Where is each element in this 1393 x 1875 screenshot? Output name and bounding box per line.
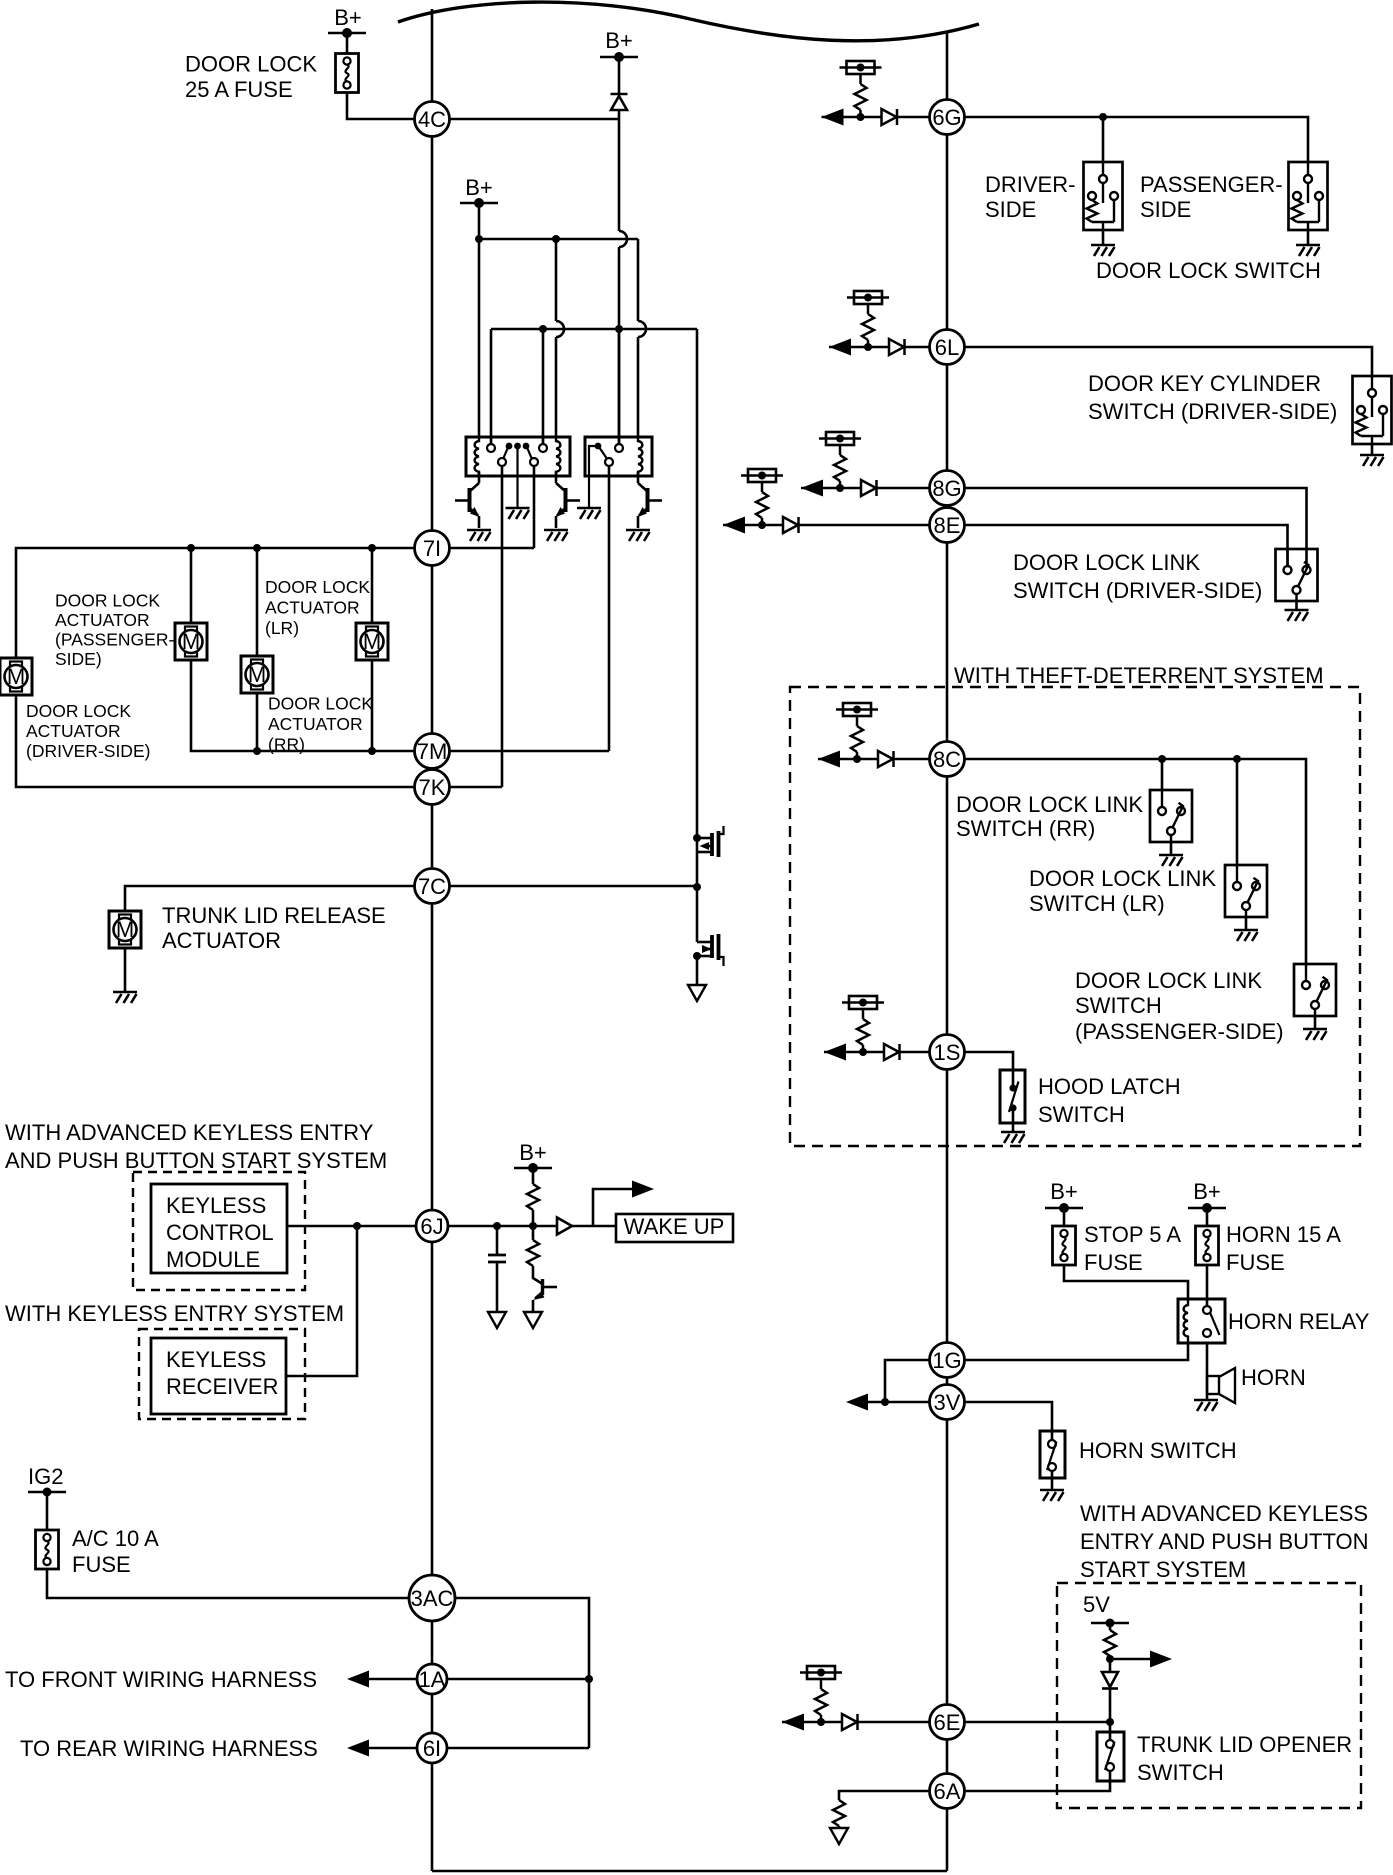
node B+ terminal (door lock fuse) xyxy=(328,28,366,38)
svg-text:TO REAR WIRING HARNESS: TO REAR WIRING HARNESS xyxy=(20,1736,318,1761)
relay U1 changeover contact dots xyxy=(506,443,513,450)
wire: left main bus (x=432) xyxy=(431,9,434,1871)
wire: Q1 emitter to ground xyxy=(478,516,481,528)
svg-text:7M: 7M xyxy=(417,739,448,764)
connector 8C xyxy=(930,742,965,777)
wire: 8G motif to bus xyxy=(877,487,931,490)
connector 8G xyxy=(930,471,965,506)
relay U1 pin circle 1 xyxy=(487,444,495,452)
svg-text:(LR): (LR) xyxy=(265,618,299,638)
svg-text:WITH ADVANCED KEYLESS: WITH ADVANCED KEYLESS xyxy=(1080,1501,1368,1526)
svg-text:6I: 6I xyxy=(423,1736,441,1761)
wire: feed 2 right end down to MOSFET drain xyxy=(696,329,699,887)
wire: actuator passenger-side to 7M line xyxy=(191,660,415,751)
svg-text:HORN 15 A: HORN 15 A xyxy=(1226,1222,1341,1247)
svg-text:MODULE: MODULE xyxy=(166,1247,260,1272)
wire: SW4 to ground xyxy=(1295,601,1298,610)
node IG2 terminal xyxy=(28,1491,66,1494)
wire: 8G right line down to link switch xyxy=(964,488,1307,566)
svg-text:DOOR LOCK: DOOR LOCK xyxy=(55,591,160,611)
wire: 8C to RR link switch xyxy=(1161,759,1164,790)
svg-text:1G: 1G xyxy=(932,1348,961,1373)
svg-text:DOOR LOCK: DOOR LOCK xyxy=(265,577,370,597)
wire: horn relay contact to horn xyxy=(1206,1343,1209,1399)
svg-text:HORN SWITCH: HORN SWITCH xyxy=(1079,1438,1237,1463)
connector 6G xyxy=(930,100,965,135)
wire: MOSFET node down xyxy=(696,887,699,942)
connector 7I xyxy=(415,531,450,566)
node junction (191,548) xyxy=(187,544,195,552)
ground (horn) xyxy=(1194,1400,1218,1411)
switch SW2 door lock switch passenger-side xyxy=(1289,162,1328,230)
wire: feed 2 to relay1 pin 2 xyxy=(542,329,545,444)
ground (SW1) xyxy=(1091,245,1115,256)
node junction (885,1402) xyxy=(881,1398,889,1406)
wire: feed down to relay 1 coil left xyxy=(478,239,481,437)
wire: actuator LR to 7M line xyxy=(256,693,259,751)
connector 7K xyxy=(415,770,450,805)
wire: stop fuse to horn relay coil xyxy=(1064,1265,1188,1299)
relay U1 pin circle 2 xyxy=(539,444,547,452)
arrow (3V/1G to other page) xyxy=(846,1394,868,1411)
svg-text:1A: 1A xyxy=(419,1667,446,1692)
wire: 1A left arrow line xyxy=(369,1678,417,1681)
svg-text:A/C 10 A: A/C 10 A xyxy=(72,1526,159,1551)
svg-text:KEYLESS: KEYLESS xyxy=(166,1193,266,1218)
MOSFET Q4 (high side) xyxy=(697,837,712,840)
wire: B+ down to feed line 1 xyxy=(478,203,481,239)
connector 8E xyxy=(930,508,965,543)
wire: SW7 to ground xyxy=(1314,1016,1317,1029)
arrow (to front wiring harness) xyxy=(347,1671,369,1688)
wire: Q2 emitter to ground xyxy=(555,516,558,528)
svg-text:DOOR LOCK: DOOR LOCK xyxy=(185,52,317,77)
svg-text:SWITCH (RR): SWITCH (RR) xyxy=(956,816,1095,841)
svg-text:6E: 6E xyxy=(934,1710,961,1735)
wire: 3V left line xyxy=(868,1401,930,1404)
wire: SW2 to ground xyxy=(1307,230,1310,245)
horn speaker symbol xyxy=(1207,1376,1219,1394)
svg-text:M: M xyxy=(182,629,200,654)
node junction (497,1226) xyxy=(493,1222,501,1230)
connector 6I xyxy=(417,1733,447,1763)
wire hop (branch over feed line 2) xyxy=(638,321,646,337)
wire: SW6 to ground xyxy=(1245,917,1248,930)
wire: 7C line left to trunk actuator xyxy=(125,886,415,911)
connector 6A xyxy=(930,1774,965,1809)
wire: 7I line right to relay U1 contact xyxy=(450,547,535,550)
arrow (5V branch, pointing right) xyxy=(1150,1651,1172,1668)
resistor motif (8G spare connector, resistor, arrow, diode D3) xyxy=(801,432,877,497)
arrow (to rear wiring harness) xyxy=(347,1740,369,1757)
relay U3 contact blade xyxy=(1210,1313,1220,1336)
connector 1A xyxy=(417,1664,447,1694)
relay U1 coil left xyxy=(475,437,479,476)
node junction (357,1226) xyxy=(353,1222,361,1230)
wire: 8C to LR link switch xyxy=(1236,759,1239,865)
resistor motif (6E spare connector, resistor, arrow, diode D8) xyxy=(782,1666,858,1731)
relay U1 contact circle left xyxy=(498,458,506,466)
svg-text:DOOR LOCK: DOOR LOCK xyxy=(26,701,131,721)
relay U3 horn relay box xyxy=(1178,1299,1225,1343)
node junction (589,1679) xyxy=(585,1675,593,1683)
node B+ terminal (relay feed) xyxy=(460,198,498,208)
svg-text:DOOR KEY CYLINDER: DOOR KEY CYLINDER xyxy=(1088,371,1321,396)
wire: SW1 to ground xyxy=(1102,230,1105,245)
svg-text:B+: B+ xyxy=(334,5,362,30)
svg-text:FUSE: FUSE xyxy=(1226,1250,1285,1275)
dashed box: keyless control module xyxy=(133,1172,305,1290)
ground (SW7) xyxy=(1303,1029,1327,1040)
connector 1G xyxy=(930,1343,965,1378)
wire: 8C motif to bus xyxy=(894,758,931,761)
transistor Q1 xyxy=(470,483,480,492)
node junction (697,887) xyxy=(693,883,701,891)
node junction (1237,759) xyxy=(1233,755,1241,763)
relay U2 contact circle xyxy=(605,458,613,466)
svg-text:25 A FUSE: 25 A FUSE xyxy=(185,77,293,102)
wire: 7I to actuator LR xyxy=(256,548,259,656)
dashed box: keyless receiver xyxy=(139,1329,305,1419)
node junction (372,751) xyxy=(368,747,376,755)
node junction (372,548) xyxy=(368,544,376,552)
node junction (1103,117) xyxy=(1099,113,1107,121)
svg-text:3AC: 3AC xyxy=(411,1586,454,1611)
node junction (533,1226) xyxy=(529,1222,537,1230)
svg-text:M: M xyxy=(7,664,25,689)
svg-text:CONTROL: CONTROL xyxy=(166,1220,274,1245)
svg-text:ENTRY AND PUSH BUTTON: ENTRY AND PUSH BUTTON xyxy=(1080,1529,1369,1554)
svg-text:(PASSENGER-SIDE): (PASSENGER-SIDE) xyxy=(1075,1019,1284,1044)
resistor R1 (pull-up) xyxy=(532,1168,535,1184)
svg-text:(PASSENGER-: (PASSENGER- xyxy=(55,630,174,650)
wire: top harness wavy line xyxy=(398,2,979,41)
ground (SW2) xyxy=(1296,245,1320,256)
motor M3 door lock actuator LR xyxy=(241,656,273,693)
svg-text:WITH KEYLESS ENTRY SYSTEM: WITH KEYLESS ENTRY SYSTEM xyxy=(5,1301,344,1326)
wire: 8C right line xyxy=(964,759,1306,964)
wire: 7I line left to actuators xyxy=(16,548,415,658)
svg-text:SWITCH: SWITCH xyxy=(1075,993,1162,1018)
svg-text:7C: 7C xyxy=(418,874,446,899)
resistor R3 (5V pull-up) xyxy=(1109,1623,1112,1630)
wire: diode vertical down to relay feed line with hop over B+ line xyxy=(618,110,621,444)
wire: feed 2 left end down to relay1 pin xyxy=(490,329,493,444)
box: keyless control module U6 xyxy=(151,1184,287,1273)
svg-text:B+: B+ xyxy=(465,175,493,200)
wire: 8E right line down to link switch xyxy=(964,525,1288,566)
ground arrow (capacitor) xyxy=(488,1312,506,1328)
ground (SW8) xyxy=(1001,1132,1025,1143)
ground (SW6) xyxy=(1234,930,1258,941)
wire: diode to 6E line xyxy=(1109,1689,1112,1741)
svg-text:ACTUATOR: ACTUATOR xyxy=(265,598,360,618)
wire: relay U2 contact down to 7M line xyxy=(608,466,611,751)
wire: relay U2 contact common to ground xyxy=(589,446,598,508)
connector 1S xyxy=(930,1035,965,1070)
connector 7C xyxy=(415,869,450,904)
wire: wake up branch arrow xyxy=(593,1189,633,1226)
node B+ terminal (diode feed) xyxy=(600,52,638,62)
wire hop (coil feed over feed line 2) xyxy=(556,321,564,337)
wire: 7M line right to relay U2 xyxy=(450,750,610,753)
resistor motif (8E spare connector, resistor, arrow, diode D4) xyxy=(723,469,799,534)
svg-text:M: M xyxy=(363,629,381,654)
node junction (697,838) MOSFET drain xyxy=(693,834,701,842)
wire: bottom link between buses xyxy=(432,1870,947,1873)
svg-text:7K: 7K xyxy=(419,775,446,800)
ground (SW5) xyxy=(1159,855,1183,866)
svg-text:WITH ADVANCED KEYLESS ENTRY: WITH ADVANCED KEYLESS ENTRY xyxy=(5,1120,374,1145)
arrow (wake up, pointing right) xyxy=(632,1181,654,1198)
node junction (543,329) xyxy=(539,325,547,333)
resistor motif (6G spare connector, resistor, arrow, diode D1) xyxy=(822,61,898,126)
ground (SW4) xyxy=(1285,610,1309,621)
switch SW8 hood latch switch xyxy=(1000,1070,1025,1123)
node junction (697,956) xyxy=(693,952,701,960)
wire: feed down to relay 1 coil right with hop xyxy=(555,239,558,437)
svg-text:HORN RELAY: HORN RELAY xyxy=(1228,1309,1370,1334)
ground (SW9) xyxy=(1040,1490,1064,1501)
svg-text:(RR): (RR) xyxy=(268,735,305,755)
wire: MOSFET source down to arrow xyxy=(696,956,699,985)
svg-text:8G: 8G xyxy=(932,476,961,501)
ground (SW3) xyxy=(1360,455,1384,466)
transistor Q3 xyxy=(638,483,648,492)
svg-text:B+: B+ xyxy=(1050,1179,1078,1204)
switch SW4 door lock link switch driver-side xyxy=(1276,549,1318,601)
svg-text:B+: B+ xyxy=(519,1140,547,1165)
capacitor C1 xyxy=(496,1226,499,1255)
motor M2 door lock actuator passenger-side xyxy=(175,623,207,660)
svg-text:KEYLESS: KEYLESS xyxy=(166,1347,266,1372)
svg-text:SWITCH (LR): SWITCH (LR) xyxy=(1029,891,1165,916)
wire: door lock fuse to 4C xyxy=(347,93,432,120)
wire: relay U1 coil left to transistor Q1 xyxy=(478,472,481,483)
ground arrow (Q6) xyxy=(524,1312,542,1328)
relay U2 pin circle xyxy=(615,444,623,452)
wire: 1G to horn relay coil bottom xyxy=(964,1343,1188,1360)
wire: 6I right xyxy=(447,1747,589,1750)
svg-text:6J: 6J xyxy=(420,1214,443,1239)
motor M4 door lock actuator RR xyxy=(356,623,388,660)
wire: 7I to actuator passenger-side xyxy=(190,548,193,623)
ground arrow (6A resistor) xyxy=(830,1828,848,1844)
svg-text:AND PUSH BUTTON START SYSTEM: AND PUSH BUTTON START SYSTEM xyxy=(5,1148,387,1173)
wire: 3AC right loop xyxy=(455,1598,589,1748)
wire: B+ to diode xyxy=(618,57,621,94)
relay U2 coil xyxy=(638,437,642,476)
switch SW9 horn switch xyxy=(1040,1431,1065,1478)
wire: relay U1 common to ground xyxy=(516,446,518,508)
wire: A/C fuse to 3AC xyxy=(47,1569,409,1598)
wire hop (diode line over B+ line 1) xyxy=(619,231,627,247)
connector 3V xyxy=(930,1385,965,1420)
wire: relay feed line 2 (y=329) xyxy=(491,328,697,331)
box: WAKE UP xyxy=(616,1214,733,1242)
wire: trunk actuator to ground xyxy=(124,948,127,992)
svg-text:TO FRONT WIRING HARNESS: TO FRONT WIRING HARNESS xyxy=(5,1667,317,1692)
svg-text:ACTUATOR: ACTUATOR xyxy=(55,610,150,630)
svg-text:B+: B+ xyxy=(1193,1179,1221,1204)
wire: 7C line right to MOSFET node xyxy=(450,885,698,888)
node junction (556,239) xyxy=(552,235,560,243)
svg-text:SWITCH: SWITCH xyxy=(1038,1102,1125,1127)
relay U1 coil right xyxy=(556,437,560,476)
ground (relay U2 common) xyxy=(577,508,601,519)
svg-text:SIDE): SIDE) xyxy=(55,649,102,669)
svg-text:HORN: HORN xyxy=(1241,1365,1306,1390)
resistor R2 (to transistor) xyxy=(532,1226,535,1240)
node junction (1110,1659) xyxy=(1106,1655,1114,1663)
svg-text:6A: 6A xyxy=(934,1779,961,1804)
svg-text:SIDE: SIDE xyxy=(985,197,1036,222)
ground (Q1) xyxy=(467,530,491,541)
diode D7 (to trunk lid opener switch) xyxy=(1102,1672,1118,1687)
wire: 6I left arrow line xyxy=(369,1747,417,1750)
connector 3AC xyxy=(409,1575,455,1621)
connector 6J xyxy=(416,1210,448,1242)
relay U2 contact dot xyxy=(595,443,602,450)
fuse DOOR LOCK 25 A FUSE xyxy=(336,54,359,93)
wire: B+ to stop fuse xyxy=(1063,1208,1066,1226)
svg-text:(DRIVER-SIDE): (DRIVER-SIDE) xyxy=(26,741,150,761)
wire: 1S right to hood latch switch xyxy=(964,1052,1013,1070)
svg-text:DOOR LOCK LINK: DOOR LOCK LINK xyxy=(1075,968,1262,993)
ground (trunk actuator) xyxy=(113,992,137,1003)
wire: right main bus (x=947) xyxy=(946,31,949,1871)
svg-text:SWITCH (DRIVER-SIDE): SWITCH (DRIVER-SIDE) xyxy=(1088,399,1337,424)
svg-text:M: M xyxy=(116,917,134,942)
svg-text:DOOR LOCK LINK: DOOR LOCK LINK xyxy=(956,792,1143,817)
MOSFET Q5 (low side) xyxy=(697,941,712,944)
svg-text:DOOR LOCK: DOOR LOCK xyxy=(268,694,373,714)
connector 6L xyxy=(930,330,965,365)
ground arrow (open triangle below MOSFET) xyxy=(688,985,706,1001)
node junction (257,751) xyxy=(253,747,261,755)
wire: relay2 pin up to feed 2 xyxy=(618,329,621,444)
motor M1 door lock actuator driver-side xyxy=(0,658,32,695)
wire: 1A right xyxy=(447,1678,589,1681)
svg-text:HOOD LATCH: HOOD LATCH xyxy=(1038,1074,1181,1099)
svg-text:TRUNK LID RELEASE: TRUNK LID RELEASE xyxy=(162,903,386,928)
wire: 6L right line to door key cylinder switch xyxy=(964,347,1372,376)
svg-text:TRUNK LID OPENER: TRUNK LID OPENER xyxy=(1137,1732,1352,1757)
svg-text:5V: 5V xyxy=(1083,1592,1110,1617)
dashed box: with theft-deterrent system xyxy=(790,687,1360,1146)
wire: 6G right line xyxy=(964,117,1308,162)
relay U1 (door lock relay block) box xyxy=(466,437,570,476)
wire: trunk lid opener switch to 6A xyxy=(964,1771,1110,1791)
relay U3 contact circles xyxy=(1203,1306,1211,1314)
connector 4C xyxy=(415,102,450,137)
wire: keyless receiver branch to 6J line xyxy=(286,1226,357,1376)
diode (B+ feed, cathode up) xyxy=(611,93,628,96)
node B+ terminal (6J pull-up) xyxy=(514,1163,552,1173)
svg-text:DRIVER-: DRIVER- xyxy=(985,172,1075,197)
wire: B+ to horn fuse xyxy=(1206,1208,1209,1226)
buffer U8 (wake up line) xyxy=(557,1218,572,1235)
wire: 3V right to horn switch xyxy=(964,1402,1052,1431)
wire: 6J right line xyxy=(448,1225,557,1228)
switch SW5 door lock link switch RR xyxy=(1150,790,1192,842)
node junction (1110,1722) xyxy=(1106,1718,1114,1726)
wire: relay feed line 1 (y=239) xyxy=(479,238,638,241)
node junction (1162,759) xyxy=(1158,755,1166,763)
wire: SW3 to ground xyxy=(1371,444,1374,455)
wire: 6L motif to bus xyxy=(905,346,931,349)
switch SW3 door key cylinder switch driver-side xyxy=(1353,376,1392,444)
svg-text:7I: 7I xyxy=(423,536,441,561)
node junction (479,239) xyxy=(475,235,483,243)
resistor motif (6L spare connector, resistor, arrow, diode D2) xyxy=(829,291,905,356)
switch SW6 door lock link switch LR xyxy=(1225,865,1267,917)
svg-text:1S: 1S xyxy=(934,1040,961,1065)
dashed box: with advanced keyless entry and push button start system xyxy=(1057,1583,1361,1808)
svg-text:SWITCH (DRIVER-SIDE): SWITCH (DRIVER-SIDE) xyxy=(1013,578,1262,603)
wire: relay U1 coil right to transistor Q2 xyxy=(555,472,558,483)
wire: relay U1 contact left down to 7K line xyxy=(501,466,504,787)
resistor R4 (6A pull-down) xyxy=(833,1800,845,1826)
wire: 1S motif to bus xyxy=(900,1051,931,1054)
node B+ terminal (stop fuse) xyxy=(1045,1203,1083,1213)
wire: relay U2 coil to transistor Q3 xyxy=(637,472,640,483)
relay U1 contact circle right xyxy=(530,458,538,466)
wire: IG2 to A/C fuse xyxy=(46,1492,49,1530)
fuse A/C 10 A xyxy=(36,1530,59,1569)
svg-text:SWITCH: SWITCH xyxy=(1137,1760,1224,1785)
svg-text:ACTUATOR: ACTUATOR xyxy=(268,714,363,734)
wire: Q3 emitter to ground xyxy=(637,516,640,528)
connector 7M xyxy=(415,734,450,769)
relay U2 (double lock relay) box xyxy=(585,437,652,476)
ground (relay U1 common) xyxy=(506,508,530,519)
svg-text:8C: 8C xyxy=(933,747,961,772)
svg-text:START SYSTEM: START SYSTEM xyxy=(1080,1557,1246,1582)
wire: 6E right line xyxy=(964,1721,1110,1724)
svg-text:M: M xyxy=(248,662,266,687)
switch SW1 door lock switch driver-side xyxy=(1084,162,1123,230)
wire: 5V branch arrow line xyxy=(1110,1658,1151,1661)
wire: SW5 to ground xyxy=(1170,842,1173,855)
ground (Q2) xyxy=(544,530,568,541)
svg-text:WAKE UP: WAKE UP xyxy=(624,1214,725,1239)
svg-text:RECEIVER: RECEIVER xyxy=(166,1374,278,1399)
wire: 7I to actuator RR xyxy=(371,548,374,623)
fuse STOP 5 A xyxy=(1053,1226,1076,1265)
wire: 6G motif to bus xyxy=(897,116,930,119)
node junction (619,329) xyxy=(615,325,623,333)
svg-text:STOP 5 A: STOP 5 A xyxy=(1084,1222,1181,1247)
wire: 6A left to resistor xyxy=(839,1791,930,1800)
svg-text:WITH THEFT-DETERRENT SYSTEM: WITH THEFT-DETERRENT SYSTEM xyxy=(954,663,1324,688)
wire: actuator RR to 7M line xyxy=(371,660,374,751)
wire: 4C to diode branch xyxy=(450,118,620,121)
relay U1 contact arms xyxy=(504,449,508,459)
motor M5 trunk lid release actuator xyxy=(109,911,141,948)
transistor Q6 xyxy=(533,1266,543,1284)
svg-text:IG2: IG2 xyxy=(28,1464,63,1489)
svg-text:ACTUATOR: ACTUATOR xyxy=(26,721,121,741)
wire: keyless control module to 6J xyxy=(287,1225,415,1228)
wire: 6E motif to bus xyxy=(858,1721,931,1724)
relay U3 coil xyxy=(1184,1299,1188,1343)
svg-text:DOOR LOCK SWITCH: DOOR LOCK SWITCH xyxy=(1096,258,1321,283)
connector 6E xyxy=(930,1705,965,1740)
switch SW7 door lock link switch passenger-side xyxy=(1294,964,1336,1016)
svg-text:DOOR LOCK LINK: DOOR LOCK LINK xyxy=(1029,866,1216,891)
wire: buffer to wake up box xyxy=(572,1225,616,1228)
